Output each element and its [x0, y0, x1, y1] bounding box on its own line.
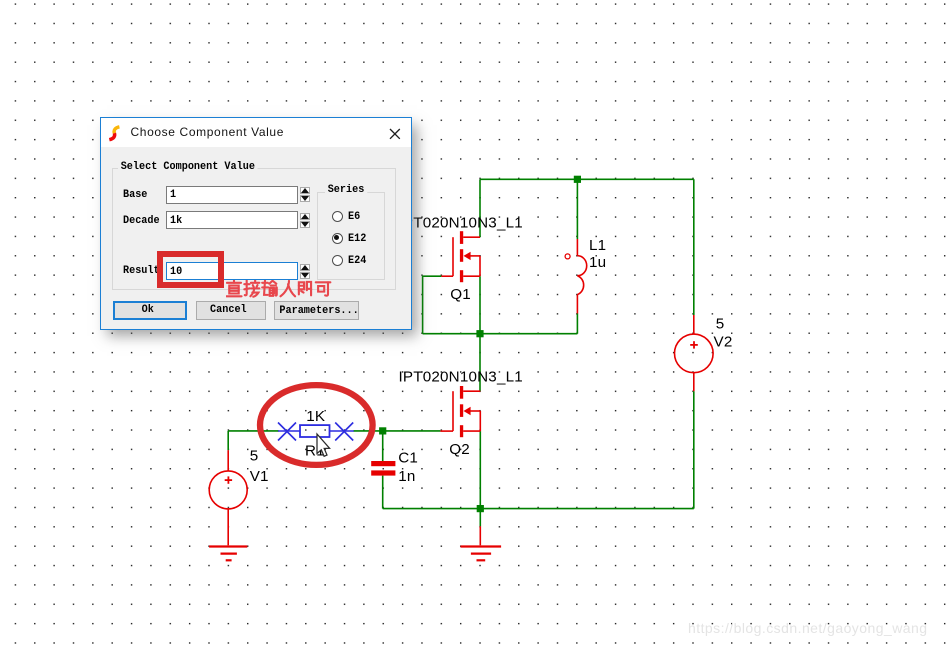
svg-text:1n: 1n — [398, 468, 415, 485]
char 可 — [316, 282, 331, 295]
resistor R1 (selected, blue) — [278, 423, 354, 441]
button Parameters — [274, 301, 359, 321]
char 直 — [226, 280, 241, 296]
L1 phase dot — [565, 254, 570, 259]
ground V1 — [209, 547, 247, 561]
annotation rectangle on Result — [157, 251, 224, 288]
wire Q2 drain riser — [479, 334, 481, 392]
close button — [389, 128, 401, 140]
wire Q2 source drop — [479, 431, 481, 509]
source V2 — [675, 315, 714, 391]
wire Q1 gate loop — [423, 276, 442, 334]
transistor Q2 — [440, 386, 480, 437]
svg-text:1u: 1u — [589, 254, 606, 271]
svg-text:1K: 1K — [306, 408, 325, 425]
junction node L1 top — [574, 176, 581, 183]
svg-text:IPT020N10N3_L1: IPT020N10N3_L1 — [399, 214, 523, 231]
transistor Q1 — [441, 231, 480, 282]
char 入 — [281, 281, 296, 296]
wire Q1 drain riser — [479, 179, 481, 237]
radio E24 — [332, 255, 343, 266]
radio E12 (selected) — [332, 233, 343, 244]
Result row — [123, 265, 160, 277]
wire Q1 source drop — [479, 276, 481, 334]
annotation Chinese text 直接输入即可 — [226, 280, 338, 301]
char 接 — [244, 280, 259, 296]
junction node C1 top — [379, 427, 386, 434]
junction node ground rail — [477, 505, 484, 512]
wire V1 to R1 — [228, 430, 279, 432]
wire C1 bottom lead — [382, 476, 384, 509]
char 即 — [299, 282, 311, 295]
Decade row — [123, 215, 160, 227]
dialog Choose Component Value — [100, 117, 412, 330]
svg-text:https://blog.csdn.net/gaoyong_: https://blog.csdn.net/gaoyong_wang — [688, 620, 927, 636]
group Select Component Value — [112, 168, 396, 291]
wire V1 top stub — [227, 431, 229, 450]
simetrix icon — [107, 125, 122, 142]
junction node Q1 source mid — [476, 330, 483, 337]
annotation ellipse around R1 — [260, 385, 373, 465]
wire right ground stub — [479, 509, 481, 527]
wire L1 bottom drop — [576, 314, 578, 334]
capacitor C1 — [371, 461, 395, 466]
svg-text:V2: V2 — [714, 334, 733, 351]
button Cancel — [196, 301, 266, 320]
wire mid horizontal — [423, 333, 578, 335]
svg-text:L1: L1 — [589, 237, 606, 254]
mouse cursor — [317, 434, 330, 456]
wire bottom rail — [383, 508, 694, 510]
svg-text:Q1: Q1 — [450, 286, 471, 303]
source V1 — [209, 450, 247, 545]
svg-text:5: 5 — [250, 448, 259, 465]
wire V2 bottom riser — [693, 391, 695, 508]
group Series — [317, 192, 385, 281]
wire C1 top lead — [382, 431, 384, 461]
wire R1 to Q2 gate — [353, 430, 440, 432]
button Ok — [113, 301, 186, 320]
svg-text:5: 5 — [716, 315, 725, 332]
radio E6 — [332, 211, 343, 222]
ground right — [461, 526, 502, 560]
wire top rail — [480, 178, 694, 180]
char 输 — [262, 280, 277, 295]
wire L1 top riser — [576, 179, 578, 239]
inductor L1 — [577, 239, 586, 314]
svg-text:Q2: Q2 — [449, 441, 470, 458]
wire V2 top riser — [693, 179, 695, 315]
svg-text:V1: V1 — [250, 468, 269, 485]
svg-text:C1: C1 — [398, 449, 418, 466]
Base row — [123, 189, 147, 201]
svg-text:IPT020N10N3_L1: IPT020N10N3_L1 — [399, 369, 523, 386]
